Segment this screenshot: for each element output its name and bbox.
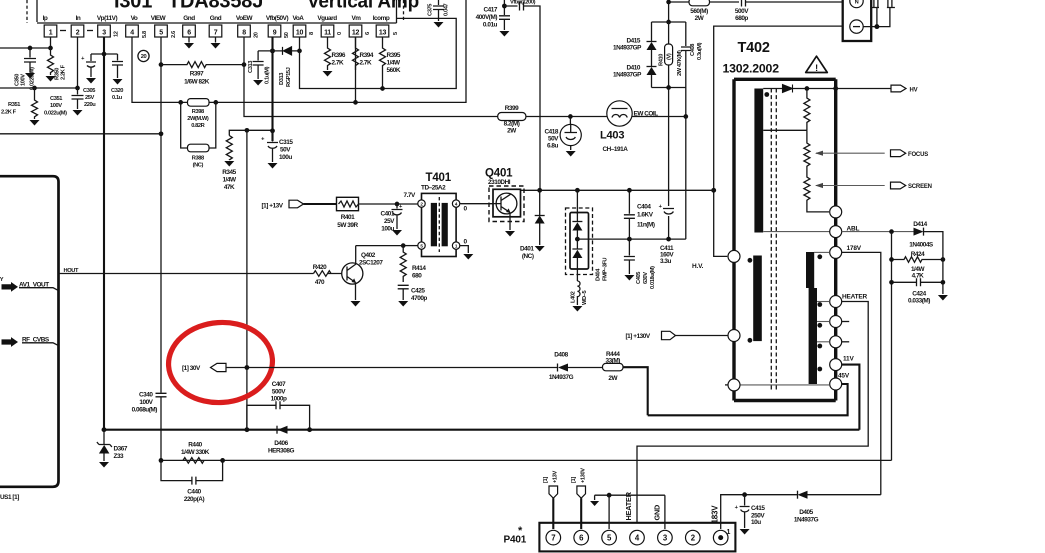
svg-text:1N4937GP: 1N4937GP xyxy=(613,45,642,52)
svg-text:R396: R396 xyxy=(332,52,346,59)
pin 11 box xyxy=(321,25,334,37)
svg-text:10u: 10u xyxy=(751,519,761,526)
svg-text:R440: R440 xyxy=(188,442,202,449)
svg-text:C417: C417 xyxy=(484,7,498,14)
svg-text:5: 5 xyxy=(159,30,163,37)
pin circle primary bottom xyxy=(728,379,740,391)
svg-text:1/4W 330K: 1/4W 330K xyxy=(181,449,210,456)
wire modulator mid xyxy=(577,238,685,240)
P401 pin 6 xyxy=(574,530,589,545)
wire pin5 VIEW column xyxy=(160,37,162,393)
node dot R414 top xyxy=(401,243,406,248)
svg-text:10: 10 xyxy=(296,30,304,37)
svg-text:2SC1207: 2SC1207 xyxy=(359,260,383,267)
wire line to pin5 from left edge xyxy=(0,133,161,135)
svg-text:R395: R395 xyxy=(387,52,401,59)
P401 pin 1 xyxy=(713,529,730,545)
capacitor C407 500V 1000p xyxy=(247,381,310,430)
pin 10 box xyxy=(293,25,306,37)
node dot D401 xyxy=(537,188,542,193)
node dot R397 left xyxy=(159,62,164,67)
diode block D404 FMP-3FU xyxy=(566,190,609,281)
node dot R410 bottom xyxy=(666,85,671,90)
wire 13V to R401 (thick) xyxy=(304,203,338,205)
capacitor C425 4700p xyxy=(398,285,428,302)
svg-text:2W(M.W): 2W(M.W) xyxy=(187,116,209,122)
terminal tag SCREEN xyxy=(891,182,932,190)
wire pin9 Vfb 50V column (thick) xyxy=(271,37,273,141)
svg-text:560K: 560K xyxy=(387,67,401,74)
op-amp IC I301 TDA8358J Vertical Amp (top, partially cut) xyxy=(37,0,419,23)
svg-text:2.7K: 2.7K xyxy=(360,60,373,67)
wire 30V line xyxy=(226,367,603,369)
svg-text:HER308G: HER308G xyxy=(268,448,294,455)
wire GND net pins 5,3 xyxy=(595,495,665,529)
capacitor C415 250V 10u (electrolytic) xyxy=(735,495,766,528)
svg-text:Gnd: Gnd xyxy=(210,15,222,22)
svg-text:[1] +13V: [1] +13V xyxy=(262,202,284,209)
svg-text:1N4937GP: 1N4937GP xyxy=(613,72,642,79)
svg-text:C424: C424 xyxy=(912,291,926,298)
pin circle 178V xyxy=(830,246,842,258)
svg-text:Z33: Z33 xyxy=(114,453,125,460)
node dot line A xyxy=(159,131,164,136)
svg-text:0.033(M): 0.033(M) xyxy=(908,298,930,305)
svg-text:0.3u(M): 0.3u(M) xyxy=(697,42,703,60)
svg-text:2.2K F: 2.2K F xyxy=(1,110,17,116)
ground D401 xyxy=(535,246,545,252)
svg-text:20: 20 xyxy=(254,32,260,38)
resistor R397 1/6W 82K xyxy=(161,62,244,86)
wire HV top winding xyxy=(763,88,836,90)
svg-text:1.6KV: 1.6KV xyxy=(637,212,654,219)
wire top B+ net xyxy=(669,0,689,22)
svg-text:SCREEN: SCREEN xyxy=(908,184,932,190)
node dot R424 right xyxy=(941,257,946,262)
svg-text:8.2(M): 8.2(M) xyxy=(504,121,520,128)
ground R345 xyxy=(224,161,234,167)
svg-text:25V: 25V xyxy=(85,95,95,101)
svg-text:220u: 220u xyxy=(84,102,96,108)
svg-text:R345: R345 xyxy=(222,169,236,176)
capacitor C320 xyxy=(104,54,123,101)
svg-text:Icomp: Icomp xyxy=(373,15,390,22)
svg-text:R388: R388 xyxy=(192,156,204,162)
T401 pin 5 xyxy=(418,242,425,249)
svg-text:[1] 30V: [1] 30V xyxy=(182,365,201,372)
pin circle top (divider return) xyxy=(830,206,842,218)
wire R424 rail left xyxy=(891,232,893,461)
svg-text:100V: 100V xyxy=(50,103,62,109)
node dot C418 xyxy=(568,114,573,119)
svg-text:L403: L403 xyxy=(600,130,624,142)
pin circle HEATER xyxy=(830,296,842,308)
wire HEATER route to P401 xyxy=(637,302,868,523)
pin 7 box xyxy=(209,25,222,37)
capacitor stub left xyxy=(871,0,879,8)
T401 pin 1 xyxy=(452,242,459,249)
svg-text:5W 39R: 5W 39R xyxy=(337,222,358,229)
ground C418 xyxy=(566,151,576,157)
node dot C415 xyxy=(742,492,747,497)
svg-text:L402: L402 xyxy=(571,291,577,303)
svg-text:R410: R410 xyxy=(659,54,665,66)
node dot pin10 col xyxy=(297,49,302,54)
terminal tag FOCUS xyxy=(891,150,929,158)
svg-text:Vguard: Vguard xyxy=(317,15,337,22)
capacitor C418 50V 6.8u xyxy=(545,117,582,151)
svg-text:D367: D367 xyxy=(114,446,128,453)
svg-text:1: 1 xyxy=(49,30,53,37)
resistor R398 0.82R xyxy=(187,99,209,129)
svg-text:FOCUS: FOCUS xyxy=(908,152,928,158)
diode D415 1N4937GP xyxy=(613,22,657,66)
svg-text:100u: 100u xyxy=(279,154,292,161)
svg-text:D408: D408 xyxy=(554,352,568,359)
pin circle ABL xyxy=(830,226,842,238)
node dot D404 mid xyxy=(575,237,580,242)
node dot bus pin3 xyxy=(102,427,107,432)
svg-text:680: 680 xyxy=(412,273,422,280)
pin 8 box xyxy=(238,25,251,37)
zener D367 Z33 xyxy=(97,430,128,461)
svg-text:C351: C351 xyxy=(50,96,62,102)
svg-text:2W: 2W xyxy=(695,15,705,22)
svg-text:7.7V: 7.7V xyxy=(404,192,417,199)
node dot pin12 on R398 line xyxy=(353,100,358,105)
svg-text:I301: I301 xyxy=(114,0,152,13)
wire 45V route (thick) xyxy=(648,384,848,415)
svg-text:US1 [1]: US1 [1] xyxy=(0,494,19,501)
ground R350 xyxy=(46,76,56,82)
wire R345 top line B xyxy=(229,130,272,135)
resistor R351 2.2K F xyxy=(1,88,38,119)
pin circle 11V xyxy=(830,359,842,371)
svg-text:C418: C418 xyxy=(545,129,559,136)
capacitor C350 xyxy=(15,48,37,90)
svg-text:1N4937G: 1N4937G xyxy=(549,374,574,381)
pin 12 box xyxy=(349,25,362,37)
winding dot s2 xyxy=(817,302,822,307)
pin 13 box xyxy=(376,25,389,37)
ground C401 xyxy=(392,230,402,236)
svg-text:2W 47K(M): 2W 47K(M) xyxy=(677,50,683,76)
P401 pin 3 xyxy=(658,530,673,545)
pin 1 box xyxy=(44,25,57,37)
svg-text:11n(M): 11n(M) xyxy=(637,222,655,229)
capacitor C440 220p(A) xyxy=(161,460,223,502)
node dot D404 xyxy=(575,188,580,193)
capacitor C401 25V 100u (electrolytic) xyxy=(381,204,403,233)
svg-text:2310DHI: 2310DHI xyxy=(488,179,511,186)
svg-text:Ip: Ip xyxy=(43,15,48,22)
svg-text:1/6W 82K: 1/6W 82K xyxy=(184,79,210,86)
svg-text:In: In xyxy=(76,15,81,22)
terminal tag HV xyxy=(891,85,918,93)
svg-text:1N4937G: 1N4937G xyxy=(794,517,819,524)
svg-text:2.6: 2.6 xyxy=(171,31,177,38)
svg-text:0.047: 0.047 xyxy=(444,4,450,16)
diode HV rectifier xyxy=(783,85,793,93)
ground C351 xyxy=(73,110,83,116)
resistor R399 8.2(M) 2W xyxy=(498,105,526,135)
svg-text:0.018u(M): 0.018u(M) xyxy=(650,266,656,289)
svg-text:560(M): 560(M) xyxy=(690,8,708,15)
wire pin3 Vp column (thick) xyxy=(103,37,105,430)
diode D313 RGP15J xyxy=(273,47,300,87)
svg-text:5.8: 5.8 xyxy=(142,31,148,38)
inductor L402 WD-5 xyxy=(571,281,589,305)
resistor R414 680 xyxy=(400,246,426,282)
wire HV output xyxy=(836,88,891,90)
svg-text:[1]: [1] xyxy=(571,477,577,483)
svg-text:33(M): 33(M) xyxy=(605,357,620,364)
svg-text:220p(A): 220p(A) xyxy=(184,496,205,503)
node dot R410 bracket top xyxy=(666,20,671,25)
svg-text:9: 9 xyxy=(273,30,277,37)
capacitor series to D401 node xyxy=(504,2,540,191)
svg-text:100V: 100V xyxy=(21,74,27,86)
diode D408 1N4937G xyxy=(549,352,574,382)
svg-text:11: 11 xyxy=(324,30,331,37)
pin 4 box xyxy=(126,25,139,37)
capacitor C408 0.3u(M) xyxy=(681,22,703,88)
ground GND net xyxy=(590,501,599,506)
wire R410 bracket xyxy=(652,22,686,88)
svg-text:Vfbp(1200): Vfbp(1200) xyxy=(510,0,536,6)
node dot bus D406 right xyxy=(307,427,312,432)
IC left block edge xyxy=(0,176,59,487)
svg-text:C408: C408 xyxy=(690,44,696,56)
wire Q402 collector xyxy=(356,246,404,263)
ground C425 xyxy=(398,301,408,307)
svg-text:R398: R398 xyxy=(192,109,204,115)
resistor R350 2.2K F xyxy=(48,48,67,80)
capacitor C351 xyxy=(44,88,84,117)
svg-text:470: 470 xyxy=(315,279,325,286)
svg-text:EW COIL: EW COIL xyxy=(634,111,659,118)
svg-text:1N4004S: 1N4004S xyxy=(909,242,934,249)
wire pin4 Vo loop to top xyxy=(132,0,466,102)
wire B+ line to flyback xyxy=(714,26,843,256)
svg-text:D404: D404 xyxy=(596,268,602,281)
wire 178V out xyxy=(842,252,881,494)
svg-text:C404: C404 xyxy=(637,204,651,211)
ground C405 xyxy=(624,275,634,281)
P401 pin 7 xyxy=(546,530,561,545)
wire 130V feed xyxy=(676,335,729,337)
wire 45V inner return xyxy=(740,384,830,386)
wire 30V vertical xyxy=(246,130,248,429)
svg-text:C320: C320 xyxy=(111,88,123,94)
resistor R345 1/4W 47K xyxy=(222,136,237,192)
node dot HV xyxy=(833,86,838,91)
capacitor 500V 680p xyxy=(710,0,843,22)
pin 9 box xyxy=(268,25,281,37)
node dot C350 xyxy=(28,46,33,51)
ground pin7 xyxy=(211,37,221,49)
svg-text:20: 20 xyxy=(141,54,147,60)
svg-text:Vertical Amp: Vertical Amp xyxy=(307,0,419,13)
node dot 50V col C315 xyxy=(270,128,275,133)
svg-text:D410: D410 xyxy=(627,65,641,72)
capacitor C404 1.6KV 11n(M) xyxy=(624,190,655,239)
node dot R398 left xyxy=(178,100,183,105)
svg-text:FMP–3FU: FMP–3FU xyxy=(603,258,609,281)
resistor R401 5W 39R (boxed) xyxy=(337,197,359,229)
node dot C417 top xyxy=(502,4,507,9)
svg-text:2.2K F: 2.2K F xyxy=(61,64,67,80)
resistor R424 1/4W 4.7K xyxy=(892,251,943,280)
ground T401 pin1 xyxy=(463,254,473,260)
wire ABL inner xyxy=(763,231,830,233)
svg-text:C407: C407 xyxy=(272,381,286,388)
svg-text:500V: 500V xyxy=(272,388,286,395)
svg-text:680p: 680p xyxy=(735,15,748,22)
node dot R351 xyxy=(32,86,37,91)
svg-text:[1] +130V: [1] +130V xyxy=(626,333,651,340)
svg-text:T402: T402 xyxy=(738,40,770,56)
wire ABL out xyxy=(842,231,914,233)
wire T401 pin4 to Q401 base xyxy=(460,203,493,205)
T402 secondary bar upper xyxy=(806,252,814,288)
svg-text:7: 7 xyxy=(551,534,555,543)
svg-text:1000p: 1000p xyxy=(271,396,287,403)
svg-text:12: 12 xyxy=(114,31,120,37)
signal arrow AV1_VOUT xyxy=(2,281,59,292)
svg-text:C340: C340 xyxy=(139,392,153,399)
node dot C401 xyxy=(395,202,400,207)
svg-text:3: 3 xyxy=(102,30,106,37)
svg-text:0: 0 xyxy=(464,239,468,246)
svg-text:HEATER: HEATER xyxy=(624,491,633,520)
svg-text:+13V: +13V xyxy=(553,471,559,483)
connector P401 box xyxy=(539,523,735,552)
svg-text:HV: HV xyxy=(910,87,918,93)
svg-text:0: 0 xyxy=(464,206,468,213)
svg-text:TD–25A2: TD–25A2 xyxy=(421,185,446,192)
svg-text:50: 50 xyxy=(284,32,290,38)
wire pin1 input net xyxy=(0,37,51,48)
terminal tag [1]+130V xyxy=(626,331,676,340)
wire winding tap to divider xyxy=(763,129,807,131)
svg-text:45V: 45V xyxy=(838,373,850,380)
tick mark pin1 xyxy=(60,30,66,32)
svg-text:D414: D414 xyxy=(913,221,927,228)
wire collector main line xyxy=(521,189,714,191)
svg-text:0.1u(M): 0.1u(M) xyxy=(265,66,271,84)
node dot R440 left xyxy=(159,458,164,463)
svg-text:0.82R: 0.82R xyxy=(191,123,204,129)
wire R401 to T401 pin2 xyxy=(359,203,418,205)
svg-text:183V: 183V xyxy=(711,505,720,524)
svg-text:0: 0 xyxy=(337,32,343,35)
svg-text:Gnd: Gnd xyxy=(183,15,195,22)
svg-text:(NC): (NC) xyxy=(193,163,204,169)
svg-text:[1]: [1] xyxy=(543,477,549,483)
node dot ABL/R424 xyxy=(889,229,894,234)
wire R444 to 45V line (thick) xyxy=(623,367,648,415)
pin 2 box xyxy=(71,25,84,37)
svg-text:CH–191A: CH–191A xyxy=(603,146,629,153)
wire pin2 input net xyxy=(0,37,78,88)
capacitor C315 50V 100u (electrolytic) xyxy=(261,131,293,162)
resistor R396 2.7K xyxy=(325,37,346,70)
transistor Q401 (HOT, boxed) xyxy=(461,186,524,230)
P401 pin 2 xyxy=(686,530,701,545)
svg-text:6: 6 xyxy=(187,30,191,37)
transformer T402 outer box (thick) xyxy=(734,79,836,400)
svg-text:5: 5 xyxy=(393,32,399,35)
svg-text:R351: R351 xyxy=(8,102,20,108)
svg-text:P401: P401 xyxy=(504,535,527,546)
svg-text:8: 8 xyxy=(309,32,315,35)
ground C313 xyxy=(253,80,263,86)
svg-text:WD–5: WD–5 xyxy=(582,291,588,305)
svg-text:50V: 50V xyxy=(280,147,291,154)
phase dot upper xyxy=(764,92,769,97)
shield dashed border left xyxy=(26,0,28,23)
potentiometer FOCUS xyxy=(804,130,885,169)
T402 secondary bar lower xyxy=(809,288,817,384)
svg-text:!: ! xyxy=(815,63,818,73)
svg-text:Vfb(50V): Vfb(50V) xyxy=(266,15,289,22)
resistor R420 470 xyxy=(313,264,331,286)
svg-text:25V: 25V xyxy=(384,218,395,225)
resistor R410 2W 47K(M) xyxy=(659,44,684,76)
node dot R398 right xyxy=(213,100,218,105)
svg-text:D405: D405 xyxy=(799,509,813,516)
capacitor C375 xyxy=(428,0,450,21)
tick stub left pin xyxy=(725,384,728,386)
svg-text:47K: 47K xyxy=(224,184,235,191)
svg-text:R424: R424 xyxy=(911,251,925,258)
svg-text:+130V: +130V xyxy=(581,468,587,483)
wire T401 pin5 net xyxy=(403,245,418,247)
svg-text:D415: D415 xyxy=(627,38,641,45)
ground D367 xyxy=(99,462,109,468)
red annotation ellipse xyxy=(166,319,275,406)
svg-text:1/4W: 1/4W xyxy=(387,60,402,67)
svg-text:RGP15J: RGP15J xyxy=(286,67,292,87)
svg-text:2.7K: 2.7K xyxy=(332,60,345,67)
svg-text:VIEW: VIEW xyxy=(151,15,167,22)
ground C415 xyxy=(740,529,750,535)
svg-text:1302.2002: 1302.2002 xyxy=(723,62,780,76)
svg-text:0.1u: 0.1u xyxy=(112,95,123,101)
capacitor stub right xyxy=(887,0,895,8)
svg-text:Vp(11V): Vp(11V) xyxy=(97,15,118,22)
svg-text:T401: T401 xyxy=(426,172,452,184)
wire from (-) terminal to caps xyxy=(863,7,890,27)
wire pin12 Vm column xyxy=(355,37,357,102)
node dot top net xyxy=(666,0,671,4)
svg-text:R420: R420 xyxy=(313,264,327,271)
svg-text:D406: D406 xyxy=(274,440,288,447)
ground Q401 emitter xyxy=(505,231,515,237)
winding dot s1 xyxy=(817,254,822,259)
svg-text:HEATER: HEATER xyxy=(842,294,868,301)
node dot C424 left xyxy=(889,280,894,285)
svg-text:C375: C375 xyxy=(428,4,434,16)
resistor bleeder xyxy=(804,89,810,131)
diode D410 1N4937GP xyxy=(613,65,657,88)
node dot bus D406 left xyxy=(244,427,249,432)
P401 pin 4 xyxy=(630,530,645,545)
diode D401 (NC) xyxy=(520,190,545,260)
svg-text:0.022u(M): 0.022u(M) xyxy=(44,111,67,117)
svg-text:13: 13 xyxy=(379,30,387,37)
